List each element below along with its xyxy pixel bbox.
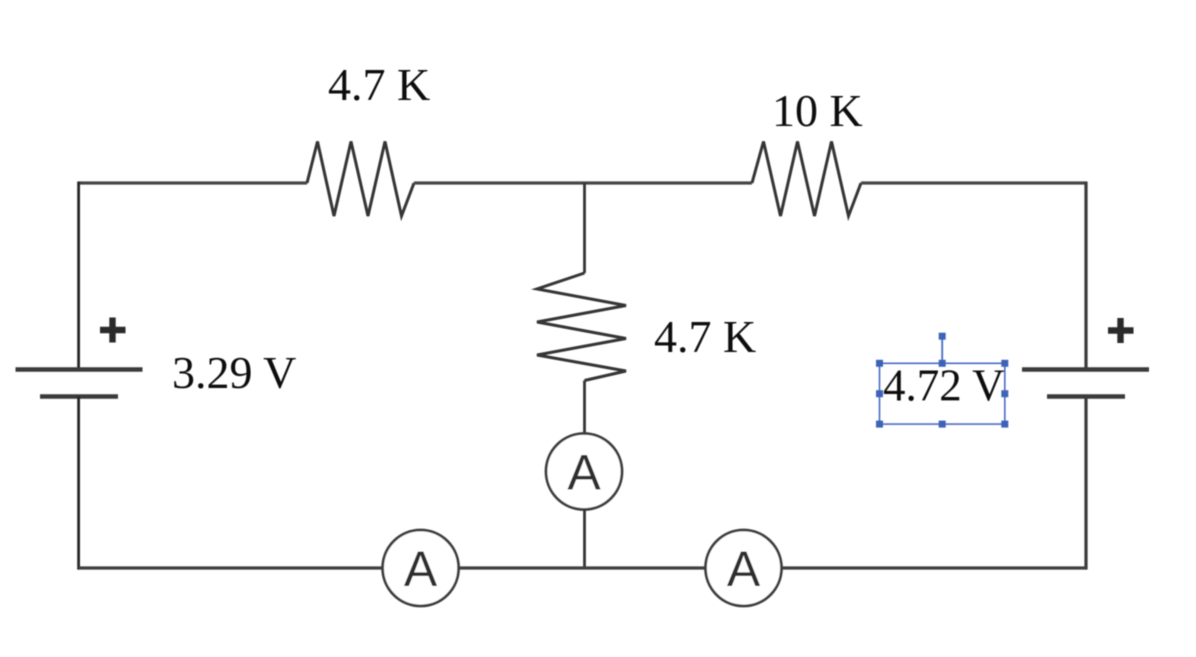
selection handles	[876, 360, 1008, 428]
svg-text:A: A	[404, 541, 438, 597]
wire left upper vertical	[77, 182, 80, 370]
wire A3 to bottom node	[583, 510, 586, 569]
ammeter A2	[706, 530, 782, 606]
wire bottom-left segment	[79, 566, 383, 569]
wire right lower vertical	[1084, 397, 1087, 570]
wire left lower vertical	[77, 397, 80, 570]
svg-text:4.7 K: 4.7 K	[654, 311, 756, 362]
selection box around 4.72 V label	[880, 363, 1005, 424]
wire right upper vertical	[1084, 182, 1087, 370]
svg-text:A: A	[727, 541, 761, 597]
battery V1	[16, 370, 143, 397]
wire bottom-middle segment	[459, 566, 706, 569]
resistor R3	[537, 273, 626, 381]
svg-text:10 K: 10 K	[772, 85, 863, 136]
selection rotation handle	[939, 333, 946, 340]
resistor R1	[307, 142, 414, 217]
wire top-right segment	[861, 181, 1086, 184]
svg-text:4.7 K: 4.7 K	[328, 59, 430, 110]
battery V2	[1022, 370, 1149, 397]
svg-text:4.72 V: 4.72 V	[883, 361, 1005, 411]
selection rotation stem	[941, 340, 943, 364]
svg-text:A: A	[567, 445, 601, 501]
wire top-middle segment	[414, 181, 752, 184]
resistor R2	[752, 142, 861, 217]
wire top-left segment	[79, 181, 307, 184]
polarity plus V1	[100, 318, 126, 343]
wire middle upper vertical	[583, 183, 586, 273]
ammeter A1	[383, 530, 459, 606]
wire bottom-right segment	[782, 566, 1087, 569]
wire R3 to ammeter A3	[583, 381, 586, 435]
polarity plus V2	[1108, 318, 1134, 343]
ammeter A3	[546, 434, 622, 510]
svg-text:3.29 V: 3.29 V	[172, 347, 296, 398]
